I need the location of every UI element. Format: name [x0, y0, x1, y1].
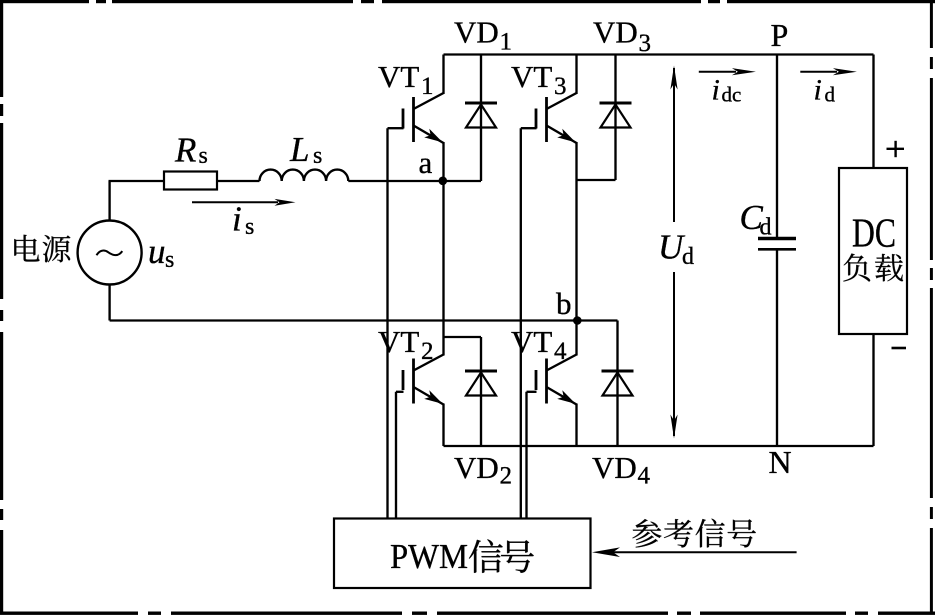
wire VT2 emitter to N rail — [442, 404, 444, 447]
PWM signal box — [334, 519, 591, 589]
svg-text:4: 4 — [554, 338, 567, 365]
wire node a to VT2 collector — [442, 181, 444, 356]
svg-text:VD: VD — [592, 450, 637, 485]
svg-text:VD: VD — [454, 450, 499, 485]
wire VT3 emitter to node b — [575, 142, 577, 321]
svg-text:L: L — [289, 130, 309, 169]
svg-text:2: 2 — [500, 463, 513, 490]
svg-text:1: 1 — [421, 73, 434, 100]
svg-text:VD: VD — [454, 15, 499, 50]
svg-text:4: 4 — [638, 463, 651, 490]
svg-text:d: d — [760, 215, 772, 241]
wire VD3 to VT3 emitter — [577, 179, 616, 181]
wire VT4 emitter to N rail — [575, 404, 577, 447]
inductor Ls — [260, 170, 349, 181]
svg-text:i: i — [232, 200, 242, 239]
svg-text:2: 2 — [421, 338, 434, 365]
svg-text:VT: VT — [378, 59, 419, 94]
arrow id — [800, 71, 837, 73]
svg-text:b: b — [556, 286, 572, 321]
arrow reference signal — [612, 551, 797, 553]
svg-text:VT: VT — [378, 324, 419, 359]
svg-text:P: P — [771, 17, 789, 53]
wire resistor to inductor — [217, 180, 260, 182]
svg-text:s: s — [245, 214, 254, 240]
label 电源 — [14, 235, 39, 262]
svg-text:N: N — [769, 444, 792, 480]
diode VD4 — [616, 321, 618, 447]
svg-text:u: u — [148, 232, 166, 271]
wire source to resistor — [109, 180, 165, 182]
svg-text:DC: DC — [852, 210, 896, 256]
label plus — [887, 148, 905, 150]
label minus — [892, 347, 907, 350]
resistor Rs — [164, 172, 217, 190]
transistor VT1 — [412, 97, 415, 142]
svg-text:1: 1 — [500, 29, 513, 56]
svg-text:a: a — [419, 145, 433, 180]
transistor VT2 — [412, 359, 415, 404]
gate wire VT1 — [388, 127, 404, 129]
arrow idc — [699, 71, 736, 73]
svg-text:s: s — [165, 247, 174, 273]
wire VT3 collector — [575, 55, 577, 95]
label 参考信号 — [632, 519, 661, 547]
wire inductor to node a — [348, 180, 443, 182]
svg-text:s: s — [313, 143, 322, 169]
svg-text:VD: VD — [593, 15, 638, 50]
svg-text:VT: VT — [511, 59, 552, 94]
wire VT2 collector to VD2 — [444, 336, 482, 338]
svg-text:PWM: PWM — [390, 537, 468, 576]
wire b rail — [110, 319, 578, 321]
arrow is — [192, 201, 278, 203]
label 负载 — [843, 254, 870, 282]
gate wire VT2 — [396, 391, 404, 393]
wire VT1 collector — [442, 55, 444, 95]
capacitor Cd — [776, 55, 778, 238]
svg-text:d: d — [825, 83, 836, 107]
svg-text:R: R — [174, 131, 196, 170]
svg-text:VT: VT — [511, 324, 552, 359]
gate wire VT3 — [521, 127, 537, 129]
svg-text:3: 3 — [554, 73, 567, 100]
wire node a to VD1 — [443, 180, 481, 182]
node a — [439, 177, 448, 186]
diode VD3 — [614, 55, 616, 181]
wire P rail to DC load — [872, 55, 874, 169]
arrow Ud — [673, 68, 675, 222]
diode VD1 — [480, 55, 482, 182]
transistor VT4 — [545, 359, 548, 404]
DC load — [839, 168, 907, 334]
svg-text:dc: dc — [722, 83, 742, 107]
gate wire VT4 — [527, 391, 537, 393]
wire DC load to N rail — [872, 334, 874, 446]
wire source bottom lead — [108, 285, 110, 321]
diode VD2 — [480, 337, 482, 446]
svg-text:3: 3 — [639, 30, 652, 57]
svg-text:d: d — [682, 244, 694, 270]
svg-text:s: s — [199, 143, 208, 169]
wire VT1 emitter to node a — [442, 142, 444, 181]
svg-text:i: i — [814, 74, 822, 107]
wire top rail P — [444, 53, 874, 55]
wire source top lead — [108, 181, 110, 220]
svg-text:i: i — [712, 74, 720, 107]
wire bottom rail N — [444, 445, 874, 447]
node b — [573, 316, 582, 325]
AC source us — [78, 221, 142, 285]
wire node b to VD4 — [577, 319, 617, 321]
transistor VT3 — [545, 97, 548, 142]
wire node b to VT4 collector — [575, 321, 577, 356]
